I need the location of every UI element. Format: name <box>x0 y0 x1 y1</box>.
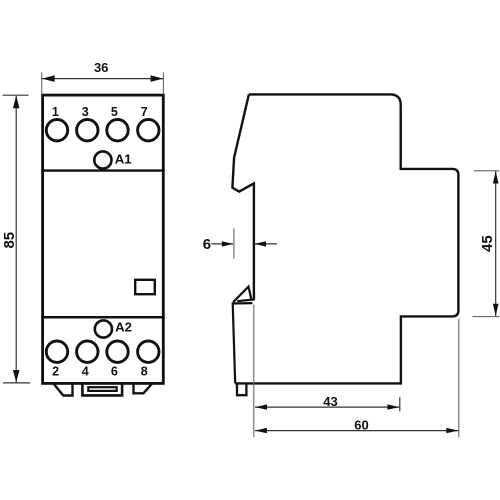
side view profile outline <box>235 94 458 383</box>
dim 60 line <box>255 430 458 432</box>
dim 36 arrow left <box>42 75 54 82</box>
dim 45 extension line top <box>474 170 499 172</box>
terminal circle 6 <box>107 341 128 362</box>
terminal circle 5 <box>107 120 128 141</box>
side view left edge with DIN notch <box>232 94 254 299</box>
dim 43 arrow right <box>387 404 399 409</box>
front view upper divider line <box>41 169 165 171</box>
terminal circle 8 <box>138 341 159 362</box>
svg-text:A2: A2 <box>115 320 132 335</box>
svg-text:36: 36 <box>94 60 108 75</box>
front center foot inner clip <box>88 387 116 391</box>
svg-text:A1: A1 <box>115 151 132 166</box>
dim 6 line right part <box>255 243 277 245</box>
front right foot <box>134 384 152 393</box>
terminal circle 4 <box>77 341 98 362</box>
dim 43-60 left extension line <box>253 305 255 438</box>
dim 6 arrow pointing left <box>254 241 266 246</box>
dim 36 line <box>42 78 163 80</box>
dim 43 right tick <box>399 397 401 411</box>
svg-text:2: 2 <box>52 364 59 378</box>
coil terminal circle A1 <box>94 151 111 168</box>
DIN clip body <box>233 303 253 383</box>
dim 36 extension line right <box>162 72 164 93</box>
terminal circle 3 <box>77 120 98 141</box>
dim 85 arrow bottom <box>13 370 20 382</box>
dim 6 line left part <box>211 243 233 245</box>
front left foot <box>54 384 73 396</box>
svg-text:7: 7 <box>141 105 148 119</box>
svg-text:8: 8 <box>141 364 148 378</box>
svg-text:3: 3 <box>82 105 89 119</box>
svg-text:4: 4 <box>82 364 89 378</box>
DIN clip foot <box>237 384 246 395</box>
dim 85 arrow top <box>13 96 20 108</box>
svg-text:5: 5 <box>111 105 118 119</box>
terminal circle 1 <box>46 120 67 141</box>
svg-text:43: 43 <box>323 394 337 409</box>
dim 45 arrow top <box>493 171 499 183</box>
coil terminal circle A2 <box>95 320 112 337</box>
front view body outline <box>43 95 164 383</box>
dim 43 arrow left <box>255 404 267 409</box>
dim 60 arrow right <box>446 428 458 433</box>
dim 43 line <box>255 406 399 408</box>
dim 6 extension line <box>233 228 235 259</box>
terminal circle 7 <box>138 120 159 141</box>
dim 6 arrow pointing right <box>222 241 234 246</box>
dim 85 tick bottom <box>3 382 30 384</box>
svg-text:45: 45 <box>479 235 496 252</box>
dim 85 tick top <box>3 94 29 96</box>
front center foot outer <box>82 384 122 395</box>
terminal circle 2 <box>46 341 67 362</box>
dim 45 line <box>495 171 497 316</box>
svg-text:85: 85 <box>1 232 18 249</box>
dim 36 extension line left <box>41 72 43 93</box>
svg-text:60: 60 <box>354 417 368 432</box>
dim 45 arrow bottom <box>493 304 499 316</box>
svg-text:6: 6 <box>203 236 211 253</box>
front view lower divider line <box>41 316 165 319</box>
dim 60 right extension line <box>458 319 460 438</box>
indicator square <box>135 280 155 294</box>
DIN clip release triangle <box>233 287 255 303</box>
dim 85 line <box>15 96 17 383</box>
dim 36 arrow right <box>151 75 163 82</box>
svg-text:6: 6 <box>111 364 118 378</box>
dim 45 extension line bottom <box>473 316 500 318</box>
svg-text:1: 1 <box>52 105 59 119</box>
dim 60 arrow left <box>255 428 267 433</box>
